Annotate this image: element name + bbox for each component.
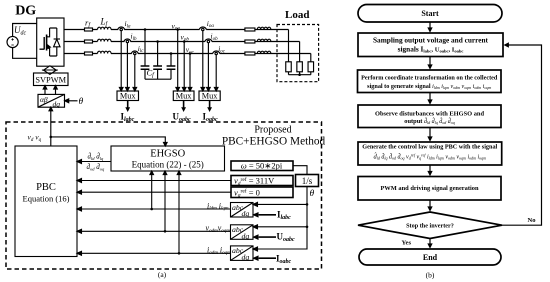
svg-text:PBC: PBC bbox=[36, 182, 56, 193]
arrow box4 to box5 bbox=[429, 165, 431, 171]
wire vdref to PBC bbox=[81, 180, 231, 182]
svg-text:dq: dq bbox=[242, 252, 250, 261]
inductor Lf b bbox=[98, 39, 112, 41]
load resistor b bbox=[245, 40, 255, 43]
hollow double arrow inverter-SVPWM bbox=[43, 66, 56, 70]
svg-text:vdref = 311V: vdref = 311V bbox=[234, 176, 275, 187]
ab/dq transform block top bbox=[38, 94, 65, 107]
theta input stub bbox=[68, 100, 78, 102]
load inductor b bbox=[257, 39, 271, 41]
current sensor ilb bbox=[124, 39, 130, 41]
load neutral node bbox=[298, 73, 301, 76]
IGBT Q1 bbox=[40, 37, 45, 50]
arrow SVPWM input 2 bbox=[55, 89, 57, 95]
resistor rf b bbox=[85, 40, 93, 43]
abc/dq block 1 bbox=[231, 203, 254, 218]
arrow decision to end bbox=[429, 239, 431, 244]
svg-text:Stop the inverter?: Stop the inverter? bbox=[406, 223, 454, 230]
svg-text:(b): (b) bbox=[426, 271, 435, 280]
load branch b wire bbox=[299, 42, 301, 62]
arrow box3 to box4 bbox=[429, 128, 431, 137]
wire source top bbox=[13, 24, 37, 37]
current sensor ilc bbox=[132, 51, 138, 54]
node cap c tap bbox=[170, 52, 173, 55]
svg-text:Mux: Mux bbox=[120, 92, 137, 101]
phase line c bbox=[64, 53, 311, 55]
wire source bottom bbox=[13, 48, 37, 59]
resistor rf a bbox=[85, 28, 93, 31]
wire abdq1 to PBC bbox=[81, 208, 231, 210]
arrow SVPWM input 1 bbox=[44, 89, 46, 95]
wire Ioabc to abdq3 bbox=[259, 257, 276, 259]
load branch c resistor bbox=[308, 62, 314, 72]
svg-text:PBC+EHGSO Method: PBC+EHGSO Method bbox=[222, 135, 326, 147]
svg-text:Equation (16): Equation (16) bbox=[23, 194, 70, 204]
svg-text:signal to generate signal ildm: signal to generate signal ildm ilqm vodm… bbox=[367, 83, 491, 90]
node cap a tap bbox=[144, 28, 147, 31]
inductor Lf a bbox=[98, 27, 112, 29]
Mux1 output arrow Ilabc bbox=[127, 101, 129, 109]
svg-text:EHGSO: EHGSO bbox=[150, 149, 185, 160]
svg-text:output d̂ld d̂lq d̂od d̂oq: output d̂ld d̂lq d̂od d̂oq bbox=[404, 118, 454, 125]
wire ilc to mux1 bbox=[134, 55, 136, 88]
SVPWM block bbox=[34, 73, 69, 86]
svg-text:Generate the control law using: Generate the control law using PBC with … bbox=[362, 144, 497, 151]
svg-text:Yes: Yes bbox=[402, 239, 412, 246]
load branch a resistor bbox=[286, 62, 292, 72]
flowchart Start terminal bbox=[358, 5, 502, 23]
svg-text:αβ: αβ bbox=[40, 95, 48, 104]
svg-text:Observe disturbances with EHGS: Observe disturbances with EHGSO and bbox=[375, 110, 484, 117]
wire vqref to PBC bbox=[81, 191, 231, 193]
theta wire from 1/s down bbox=[257, 187, 307, 250]
Mux2 output arrow Uoabc bbox=[183, 101, 185, 109]
wire voc to mux2 bbox=[189, 54, 191, 88]
svg-text:(a): (a) bbox=[158, 270, 167, 279]
node branch vdvq bbox=[50, 136, 53, 139]
1/s integrator block bbox=[296, 175, 319, 187]
flowchart box4 control law bbox=[358, 142, 502, 165]
phase line b bbox=[64, 41, 300, 43]
node EHGSO tap1 bbox=[150, 208, 153, 211]
arrow start to box1 bbox=[429, 22, 431, 28]
wire vd vq from PBC to ab/dq bbox=[50, 111, 52, 147]
svg-text:Mux: Mux bbox=[202, 92, 219, 101]
wire EHGSO to PBC bbox=[81, 161, 111, 163]
node EHGSO tap2 bbox=[164, 230, 167, 233]
Mux3 block bbox=[199, 91, 220, 101]
flowchart End terminal bbox=[359, 249, 501, 265]
wire vob to mux2 bbox=[183, 42, 185, 88]
svg-text:DG: DG bbox=[15, 4, 36, 19]
svg-text:Load: Load bbox=[285, 9, 309, 21]
capacitor Cf c bbox=[170, 54, 172, 80]
Proposed method dashed box bbox=[6, 122, 322, 269]
phase line a bbox=[64, 29, 289, 31]
node voa bbox=[176, 28, 179, 31]
vq ref block bbox=[231, 187, 293, 198]
wire tap1 to EHGSO bbox=[151, 175, 153, 210]
wire omega to 1/s bbox=[293, 166, 307, 175]
node cap b tap bbox=[156, 40, 159, 43]
wire Ilabc to abdq1 bbox=[259, 214, 276, 216]
wire abdq3 to PBC bbox=[81, 252, 231, 254]
wire branch to EHGSO top bbox=[51, 137, 166, 143]
svg-text:SVPWM: SVPWM bbox=[35, 75, 66, 84]
wire tap3 to EHGSO bbox=[178, 175, 180, 254]
diode D1 bbox=[50, 28, 57, 56]
omega reference block bbox=[231, 161, 293, 171]
flowchart box5 PWM bbox=[358, 177, 501, 201]
node theta tap 1 bbox=[306, 203, 309, 206]
svg-text:signals Ilabc, Uoabc, Ioabc: signals Ilabc, Uoabc, Ioabc bbox=[398, 45, 464, 54]
wire voa to mux2 bbox=[177, 30, 179, 88]
inverter U1 box bbox=[37, 18, 64, 66]
flowchart box2 transform bbox=[358, 70, 502, 93]
PBC block bbox=[15, 146, 77, 257]
capacitor Cf a bbox=[144, 30, 146, 80]
dc source circle bbox=[7, 36, 18, 47]
current sensor iob bbox=[205, 39, 212, 42]
Mux1 block bbox=[117, 91, 139, 101]
arrow box5 to decision bbox=[429, 200, 431, 207]
svg-text:dq: dq bbox=[53, 100, 61, 109]
wire ila to mux1 bbox=[120, 31, 122, 88]
load inductor a bbox=[257, 27, 271, 29]
abc/dq block 2 bbox=[231, 225, 254, 240]
svg-text:Equation (22) - (25): Equation (22) - (25) bbox=[132, 160, 204, 170]
arrow box1 to box2 bbox=[429, 57, 431, 65]
capacitor bus wire bbox=[145, 78, 171, 80]
capacitor Cf b bbox=[157, 42, 159, 80]
Mux2 block bbox=[173, 91, 194, 101]
node theta tap 2 bbox=[306, 226, 309, 229]
node EHGSO tap3 bbox=[178, 252, 181, 255]
flowchart box1 sampling bbox=[358, 33, 503, 57]
load resistor a bbox=[245, 28, 255, 31]
svg-text:Perform coordinate transformat: Perform coordinate transformation on the… bbox=[361, 75, 498, 82]
wire theta to abdq1 bbox=[257, 203, 307, 205]
current sensor ioa bbox=[200, 27, 207, 30]
resistor rf c bbox=[85, 52, 93, 55]
svg-text:Sampling output voltage and cu: Sampling output voltage and current bbox=[373, 36, 489, 45]
wire ioc to mux3 bbox=[215, 55, 217, 88]
svg-text:1/s: 1/s bbox=[302, 176, 313, 186]
node vob bbox=[183, 40, 186, 43]
svg-text:Proposed: Proposed bbox=[254, 125, 291, 136]
load branch b resistor bbox=[297, 62, 303, 72]
svg-text:dq: dq bbox=[242, 209, 250, 218]
svg-text:No: No bbox=[528, 217, 537, 224]
wire iob to mux3 bbox=[207, 43, 209, 88]
load neutral bus bbox=[289, 74, 311, 76]
abc/dq block 3 bbox=[231, 246, 254, 261]
load branch a wire bbox=[288, 30, 290, 62]
load inductor c bbox=[257, 51, 271, 53]
load branch c wire bbox=[310, 54, 312, 62]
wire abdq2 to PBC bbox=[81, 230, 231, 232]
svg-text:Mux: Mux bbox=[176, 92, 193, 101]
current sensor ioc bbox=[213, 51, 220, 53]
inductor Lf c bbox=[98, 51, 112, 53]
svg-text:θ: θ bbox=[310, 189, 315, 199]
svg-text:θ: θ bbox=[79, 97, 84, 107]
flowchart box3 observe bbox=[358, 105, 501, 128]
vd ref block bbox=[231, 176, 293, 186]
svg-text:Start: Start bbox=[421, 9, 439, 18]
svg-text:End: End bbox=[423, 253, 438, 262]
node voc bbox=[189, 52, 192, 55]
wire ioa to mux3 bbox=[202, 31, 204, 88]
decision stop inverter bbox=[358, 212, 502, 239]
load resistor c bbox=[245, 52, 255, 55]
svg-text:PWM and driving signal generat: PWM and driving signal generation bbox=[381, 185, 479, 192]
EHGSO block bbox=[111, 146, 225, 171]
wire theta to abdq2 bbox=[257, 226, 307, 228]
Load dashed box bbox=[277, 25, 319, 82]
wire tap2 to EHGSO bbox=[164, 175, 166, 232]
svg-text:ω = 50∗2pi: ω = 50∗2pi bbox=[241, 161, 283, 171]
No loop wire bbox=[502, 45, 542, 225]
arrow box2 to box3 bbox=[429, 93, 431, 100]
Mux3 output arrow Ioabc bbox=[209, 101, 211, 109]
wire ilb to mux1 bbox=[126, 43, 128, 88]
wire Uoabc to abdq2 bbox=[259, 236, 276, 238]
current sensor ila bbox=[118, 27, 124, 30]
svg-text:dq: dq bbox=[242, 231, 250, 240]
